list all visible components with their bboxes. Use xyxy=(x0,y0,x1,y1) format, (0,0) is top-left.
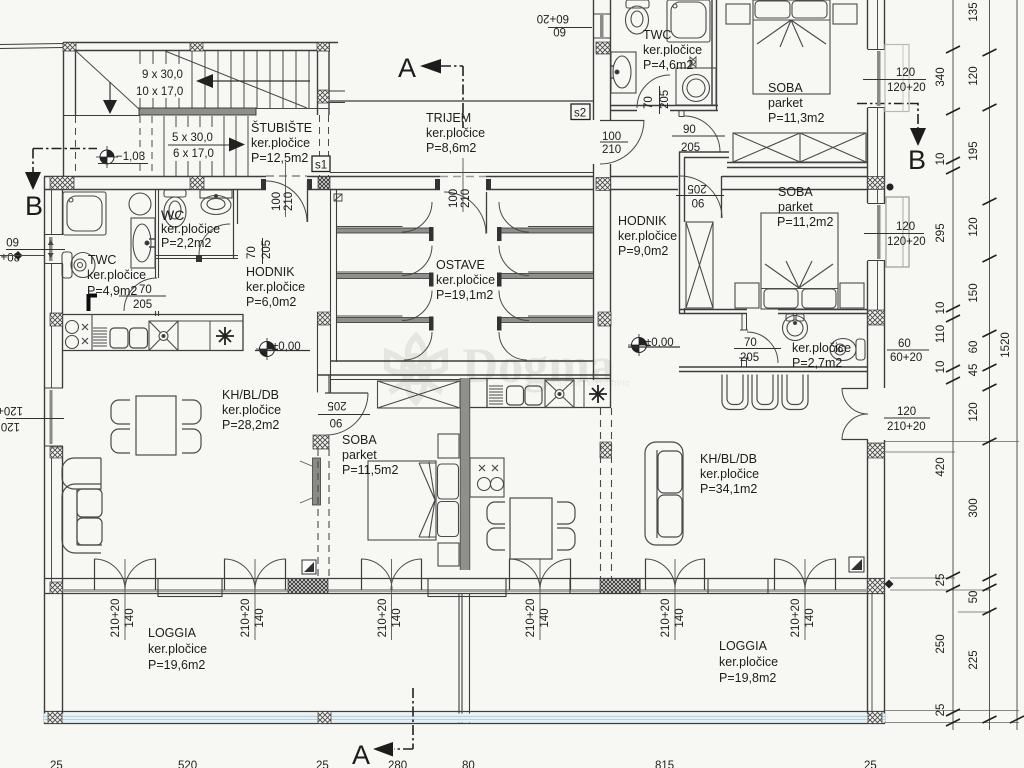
svg-text:s2: s2 xyxy=(574,108,586,120)
soba11.5 nightstand bottom xyxy=(438,543,459,566)
hatch soba11.5 left xyxy=(313,435,329,449)
trijem / ostave top wall xyxy=(330,177,593,190)
trijem bottom thin line xyxy=(330,172,593,174)
svg-text:205: 205 xyxy=(687,182,706,194)
room label trijem xyxy=(426,111,485,155)
svg-text:205: 205 xyxy=(659,90,671,109)
svg-text:135: 135 xyxy=(968,2,980,21)
stair label divider xyxy=(168,144,229,146)
svg-text:205: 205 xyxy=(261,240,273,259)
section A dash-dot top xyxy=(441,66,463,128)
svg-text:A: A xyxy=(398,53,416,83)
soba11.2 door leaf xyxy=(721,176,723,218)
bath2.7 sink xyxy=(783,314,808,341)
ostave bottom wall xyxy=(318,361,611,375)
svg-text:ker.pločice: ker.pločice xyxy=(87,268,146,282)
loggia french door D4 leaves xyxy=(510,559,571,590)
loggia D4 dim xyxy=(525,559,551,640)
shutter box symbol right xyxy=(849,557,864,572)
svg-text:120+20: 120+20 xyxy=(887,236,926,248)
svg-text:OSTAVE: OSTAVE xyxy=(436,258,485,272)
room label ostave xyxy=(436,258,495,302)
svg-text:205: 205 xyxy=(681,142,700,154)
svg-text:TWC: TWC xyxy=(88,253,116,267)
svg-text:70: 70 xyxy=(139,284,152,296)
loggia D6 arcs xyxy=(774,559,836,590)
soba11.3 bottom wall B xyxy=(727,163,867,168)
svg-text:25: 25 xyxy=(935,704,947,717)
svg-text:205: 205 xyxy=(133,299,152,311)
kitchen-r sink bowls xyxy=(507,386,524,405)
kitchen-r counter xyxy=(470,379,611,408)
s2 box xyxy=(571,104,590,120)
svg-text:205: 205 xyxy=(327,399,346,411)
kitchen-l inner counter line xyxy=(178,321,243,351)
right wall mid line xyxy=(872,0,878,711)
svg-text:110: 110 xyxy=(935,325,947,343)
section A arrow top xyxy=(420,59,441,74)
twc-r valve xyxy=(690,57,696,67)
mid wall soba11.5/kitchen dark band xyxy=(461,378,470,570)
svg-text:210+20: 210+20 xyxy=(110,599,122,638)
soba11.2 door dim 90/205 rotated180 xyxy=(676,182,724,208)
svg-text:60: 60 xyxy=(898,338,911,350)
svg-text:P=9,0m2: P=9,0m2 xyxy=(618,244,668,258)
twc-r sink xyxy=(611,52,636,93)
svg-text:P=11,5m2: P=11,5m2 xyxy=(342,463,398,477)
svg-text:150: 150 xyxy=(968,283,980,302)
svg-text:120: 120 xyxy=(897,406,916,418)
loggia french door D1 leaves xyxy=(95,559,156,590)
room label loggia right xyxy=(719,639,778,685)
twc-l vanity xyxy=(131,218,156,268)
wc lower wall xyxy=(155,256,238,259)
svg-text:LOGGIA: LOGGIA xyxy=(719,639,768,653)
right hodnik top wall xyxy=(611,177,867,190)
twc-l door arc xyxy=(124,278,157,311)
svg-text:P=2,7m2: P=2,7m2 xyxy=(792,356,842,370)
twc-l toilet xyxy=(62,252,95,278)
soba11.2 bed xyxy=(761,213,838,309)
svg-text:SOBA: SOBA xyxy=(768,81,803,95)
svg-text:300: 300 xyxy=(968,498,980,517)
dim chain line A xyxy=(952,0,954,730)
room label soba11.3 xyxy=(768,81,824,125)
wc door arc xyxy=(199,224,230,255)
loggia D2 dim xyxy=(240,559,266,640)
svg-text:B: B xyxy=(908,145,926,175)
ostave door dim stem xyxy=(462,158,464,212)
loggia D2 arcs xyxy=(224,559,286,590)
right outer wall xyxy=(868,0,885,724)
dim extension lines right xyxy=(885,442,1019,723)
svg-text:120: 120 xyxy=(968,402,980,421)
svg-text:340: 340 xyxy=(935,67,947,86)
room label wc xyxy=(161,207,220,250)
soba11.2 nightstand right xyxy=(840,283,864,308)
svg-text:210+20: 210+20 xyxy=(660,599,672,638)
svg-text:420: 420 xyxy=(935,457,947,476)
svg-text:10 x 17,0: 10 x 17,0 xyxy=(136,86,183,98)
dim chain line B xyxy=(989,0,991,730)
soba11.5 door dim 90/205 rotated180 xyxy=(318,399,370,428)
hatch left apartment top wall xyxy=(50,177,74,190)
loggia D5 arcs xyxy=(645,559,705,590)
left wall inner line xyxy=(51,190,53,595)
soba11.3 door dim 90/205 xyxy=(672,124,725,154)
wc sink xyxy=(200,190,232,215)
right window1 dim 120/120+20 xyxy=(863,67,926,94)
svg-text:100: 100 xyxy=(271,192,283,211)
svg-text:P=2,2m2: P=2,2m2 xyxy=(161,236,211,250)
right wall node dot xyxy=(887,184,894,191)
loggia D1 arcs xyxy=(94,559,156,590)
svg-text:parket: parket xyxy=(342,448,377,462)
svg-text:9 x 30,0: 9 x 30,0 xyxy=(142,69,183,81)
loggia french door D5 leaves xyxy=(646,559,705,590)
dining-r table xyxy=(510,498,552,559)
svg-text:70: 70 xyxy=(246,246,258,259)
svg-text:10: 10 xyxy=(935,153,947,166)
ostave left wall xyxy=(318,190,337,393)
bottom window sill W4 xyxy=(708,579,768,594)
stair landing edge line xyxy=(63,115,140,117)
right balcony door arcs xyxy=(842,388,868,440)
bath2.7 door stub xyxy=(740,314,748,331)
stair landing bar xyxy=(139,108,256,115)
svg-text:P=6,0m2: P=6,0m2 xyxy=(246,295,296,309)
svg-text:120: 120 xyxy=(896,221,915,233)
right wall window 1 xyxy=(868,45,910,112)
svg-text:120+20: 120+20 xyxy=(0,404,23,416)
watermark flower xyxy=(387,336,445,402)
svg-text:210+20: 210+20 xyxy=(790,599,802,638)
svg-text:ker.pločice: ker.pločice xyxy=(643,43,702,57)
twc bottom wall xyxy=(611,106,718,111)
soba11.5 top edge line xyxy=(330,379,460,381)
mid wall dark fill xyxy=(461,378,470,570)
soba11.5 left wall upper xyxy=(328,375,330,393)
svg-text:60: 60 xyxy=(553,25,566,37)
svg-text:520: 520 xyxy=(178,760,197,768)
svg-text:60+20: 60+20 xyxy=(537,12,569,24)
kitchen-l dishwasher X xyxy=(149,321,178,351)
svg-text:280: 280 xyxy=(388,760,407,768)
soba11.5 door arc xyxy=(326,393,368,435)
svg-text:25: 25 xyxy=(935,574,947,587)
svg-text:120: 120 xyxy=(968,66,980,85)
stair diagonal break lines xyxy=(76,51,307,110)
loggia D3 dim xyxy=(377,559,403,640)
svg-text:195: 195 xyxy=(968,141,980,160)
svg-text:210: 210 xyxy=(460,189,472,208)
svg-text:P=28,2m2: P=28,2m2 xyxy=(222,418,279,432)
hatch loggia bottom mid xyxy=(318,712,331,724)
tick line C bottom xyxy=(1010,716,1024,723)
svg-text:P=4,9m2: P=4,9m2 xyxy=(87,284,137,298)
door s1 entry posts xyxy=(261,179,312,190)
door s1 arc xyxy=(266,181,307,222)
bath2.7 toilet xyxy=(830,339,865,361)
stair left wall xyxy=(64,43,76,177)
svg-text:5 x 30,0: 5 x 30,0 xyxy=(172,132,213,144)
sofa-r xyxy=(645,442,683,545)
room label bath2.7 xyxy=(792,341,851,370)
svg-text:−1,03: −1,03 xyxy=(116,151,145,163)
ostave top door leaf xyxy=(486,192,488,233)
svg-text:P=11,2m2: P=11,2m2 xyxy=(777,215,833,229)
svg-text:HODNIK: HODNIK xyxy=(618,214,667,228)
hatch right outer wall xyxy=(868,177,885,190)
loggia D3 arcs xyxy=(361,559,422,590)
bath2.7 lower stub xyxy=(739,358,749,367)
left wall vent dim 60/80+20 (rotated 180) xyxy=(0,235,65,262)
soba11.3 wardrobe xyxy=(733,133,866,162)
svg-text:120: 120 xyxy=(896,67,915,79)
kitchen-r boiler asterisk xyxy=(584,380,607,408)
dining-r chairs xyxy=(487,502,575,550)
svg-text:100: 100 xyxy=(602,131,621,143)
svg-text:HODNIK: HODNIK xyxy=(246,265,295,279)
sofa-l xyxy=(62,458,102,553)
ostave door posts xyxy=(435,179,491,190)
kitchen-r stove unit xyxy=(470,458,504,497)
wc door dim 70/205 rotated xyxy=(246,238,273,264)
ostave compartment door lines right xyxy=(528,227,593,317)
level symbol 0.00 left xyxy=(255,338,310,360)
dining-l chairs xyxy=(111,400,201,453)
svg-text:25: 25 xyxy=(864,760,877,768)
twc-r door dim 70/205 rotated xyxy=(643,86,671,114)
svg-text:140: 140 xyxy=(124,608,136,627)
svg-text:ker.pločice: ker.pločice xyxy=(161,222,220,236)
bath2.7 door dim 70/205 xyxy=(734,337,781,364)
section A dash-dot bottom xyxy=(394,688,413,749)
soba11.5 window swing marks xyxy=(300,461,312,503)
svg-text:±0,00: ±0,00 xyxy=(272,341,301,353)
left window dim 120+20/120 (rotated 180) xyxy=(0,404,64,432)
s1 box xyxy=(312,156,330,172)
hatch blocks: stair top wall xyxy=(48,42,885,724)
svg-text:WC: WC xyxy=(161,207,184,223)
soba11.3 nightstand right xyxy=(833,4,857,24)
dining-l table xyxy=(136,396,176,455)
bottom window sill W3 xyxy=(570,579,640,594)
soba11.3 nightstand left xyxy=(726,4,750,24)
svg-text:SOBA: SOBA xyxy=(342,433,377,447)
dense crosshatch bottom wall left of soba11.5 xyxy=(288,579,328,594)
stair up arrow line xyxy=(212,80,310,82)
soba11.2 bottom wall xyxy=(679,310,867,314)
room label soba11.5 xyxy=(342,433,398,477)
soba11.5 window dark bar xyxy=(313,458,321,505)
section B dash-dot right xyxy=(857,104,918,129)
right balcony dim 120/210+20 xyxy=(884,406,930,433)
svg-text:140: 140 xyxy=(674,608,686,627)
svg-text:ker.pločice: ker.pločice xyxy=(436,273,495,287)
twc-r wall window glazing xyxy=(594,14,611,38)
loggia french door D6 leaves xyxy=(775,559,836,590)
loggia bottom wall lines xyxy=(44,712,885,724)
stair top wall xyxy=(63,43,338,51)
room label kh right xyxy=(700,452,759,496)
section B arrow right xyxy=(910,128,926,146)
stair right wall ledge lines xyxy=(318,91,346,103)
svg-text:P=19,1m2: P=19,1m2 xyxy=(436,288,493,302)
svg-text:205: 205 xyxy=(740,352,759,364)
left wall window 120 xyxy=(44,388,63,446)
right window2 dim 120/120+20 xyxy=(864,221,926,248)
svg-text:210+20: 210+20 xyxy=(887,421,926,433)
svg-text:ker.pločice: ker.pločice xyxy=(222,403,281,417)
svg-text:parket: parket xyxy=(778,200,813,214)
hatch left outer wall xyxy=(50,313,63,326)
twc right wall xyxy=(712,0,717,111)
soba11.3 bed xyxy=(753,0,830,94)
svg-text:B: B xyxy=(25,191,43,221)
dim labels chain B rotated xyxy=(968,2,980,669)
bath2.7 bottom wall xyxy=(679,367,867,372)
svg-text:TWC: TWC xyxy=(643,28,671,42)
soba11.5 door leaf xyxy=(325,392,368,394)
white backing for stair texts xyxy=(133,64,189,98)
loggia D1 dim xyxy=(110,559,136,640)
kitchen-l counter outline xyxy=(63,315,244,351)
kitchen-l boiler asterisk xyxy=(216,327,234,345)
svg-text:A: A xyxy=(352,740,370,768)
left node line xyxy=(0,255,44,257)
twc-l door dim 70/205 xyxy=(119,284,166,311)
svg-text:70: 70 xyxy=(744,337,757,349)
kitchen-l stove xyxy=(66,315,93,351)
twc-l basin xyxy=(129,193,151,215)
svg-text:70: 70 xyxy=(643,96,655,109)
section A arrow bottom xyxy=(373,742,393,757)
section B arrow left xyxy=(25,172,41,190)
soba11.5 bed xyxy=(368,461,459,540)
svg-text:60+20: 60+20 xyxy=(890,352,922,364)
twc-l partition stub below door xyxy=(156,311,159,316)
loggia D5 dim xyxy=(660,559,686,640)
soba11.3 bottom wall A xyxy=(679,152,729,158)
door s1 dim stem xyxy=(285,162,287,217)
soba11.2 door arc xyxy=(680,176,722,218)
kitchen-l drainer hatch xyxy=(93,328,107,346)
stair right wall xyxy=(318,43,330,116)
right wall node diamond xyxy=(885,580,894,589)
level -1,03 underline xyxy=(98,163,148,165)
twc-r door arc xyxy=(637,75,670,108)
soba11.2 left wall xyxy=(680,152,685,314)
svg-text:250: 250 xyxy=(935,634,947,653)
stair upper flight treads xyxy=(140,51,309,108)
room label stubiste xyxy=(251,120,312,165)
svg-text:25: 25 xyxy=(316,760,329,768)
left wall vent window xyxy=(44,235,63,264)
stair down line xyxy=(109,82,111,101)
svg-text:90: 90 xyxy=(692,196,705,208)
loggia wall blue band xyxy=(44,714,885,723)
svg-text:KH/BL/DB: KH/BL/DB xyxy=(700,452,757,466)
room label kh left xyxy=(222,388,281,432)
room label soba11.2 xyxy=(777,185,833,229)
bottom window sill W2 xyxy=(428,579,506,597)
stair up arrowhead xyxy=(196,74,213,88)
kitchen-l sink bowls xyxy=(110,328,128,348)
svg-text:50: 50 xyxy=(968,591,980,604)
ostave door stopper xyxy=(334,194,342,201)
svg-text:KH/BL/DB: KH/BL/DB xyxy=(222,388,279,402)
loggia french door D2 leaves xyxy=(225,559,286,590)
hatch stair right wall mid xyxy=(318,90,330,103)
twc-l partition wall xyxy=(156,190,159,278)
right entry dim 100/210 xyxy=(600,131,628,156)
twc door wall stub xyxy=(679,111,684,117)
twc-r window dim 60+20/60 (rotated 180) xyxy=(537,12,592,37)
ostave compartment door lines left xyxy=(337,227,403,317)
svg-text:ker.pločice: ker.pločice xyxy=(426,126,485,140)
door s1 entry dashed lintel xyxy=(266,175,307,177)
bath2.7 door arc xyxy=(747,332,778,363)
level -1,03 symbol xyxy=(96,146,118,168)
loggia wall blue lines xyxy=(44,717,885,720)
svg-text:120: 120 xyxy=(968,217,980,236)
svg-text:90: 90 xyxy=(330,416,343,428)
stair down arrowhead xyxy=(103,100,117,114)
svg-text:60: 60 xyxy=(968,341,980,354)
wc partition wall xyxy=(234,190,238,258)
bottom dim numbers (cut) xyxy=(50,760,877,768)
wc toilet xyxy=(164,190,186,227)
svg-text:parket: parket xyxy=(768,96,803,110)
left apartment top wall xyxy=(44,177,330,190)
right entry door leaf xyxy=(600,120,644,122)
svg-text:90: 90 xyxy=(683,124,696,136)
ostave-hodnik wall xyxy=(594,0,611,408)
room label loggia left xyxy=(148,626,207,672)
soba11.5 wardrobe xyxy=(378,381,461,408)
dim chain line C xyxy=(1016,0,1018,730)
ostave shelf end caps xyxy=(429,227,502,331)
svg-text:TRIJEM: TRIJEM xyxy=(426,111,471,125)
loggia D4 arcs xyxy=(509,559,571,590)
hatch ostave/hodnik wall xyxy=(596,42,610,54)
svg-text:140: 140 xyxy=(539,608,551,627)
svg-text:80: 80 xyxy=(462,760,475,768)
soba11.3 door arc xyxy=(684,116,720,152)
svg-text:140: 140 xyxy=(391,608,403,627)
svg-text:ŠTUBIŠTE: ŠTUBIŠTE xyxy=(251,120,312,135)
svg-text:210: 210 xyxy=(602,144,621,156)
stair dashed lines below landing xyxy=(76,115,329,176)
svg-text:P=8,6m2: P=8,6m2 xyxy=(426,141,476,155)
svg-text:140: 140 xyxy=(804,608,816,627)
twc-r shower xyxy=(667,0,710,42)
svg-text:295: 295 xyxy=(935,223,947,242)
svg-text:225: 225 xyxy=(968,650,980,669)
dense crosshatch bottom wall right apt window xyxy=(600,579,640,594)
bath2.7 dim 60/60+20 xyxy=(887,338,929,364)
svg-text:ker.pločice: ker.pločice xyxy=(148,642,207,656)
apartment divider dashed lines xyxy=(318,408,612,578)
svg-text:6 x 17,0: 6 x 17,0 xyxy=(173,148,214,160)
svg-text:P=12,5m2: P=12,5m2 xyxy=(251,151,308,165)
ostave top door arc xyxy=(444,192,486,234)
ostave compartment arcs right xyxy=(499,202,529,360)
twc-l radiator bar xyxy=(89,294,98,311)
soba11.5 nightstand top xyxy=(438,434,459,458)
door s1 dim 100/210 rotated xyxy=(271,192,295,211)
